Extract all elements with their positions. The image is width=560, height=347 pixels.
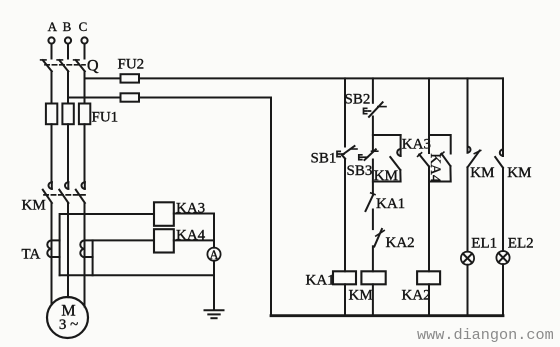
contact KM lamp2 [495,150,503,168]
wire KM to EL1 [467,167,469,251]
svg-text:EL2: EL2 [508,236,534,252]
node B terminal [65,37,71,43]
wire phase B to FU1 [67,71,69,103]
pushbutton SB2 actuator E [364,108,371,113]
svg-text:A: A [48,19,58,34]
relay coil KA4 [154,229,174,252]
svg-text:KM: KM [470,165,494,181]
wire KA3 to ammeter [174,214,214,248]
wire TA-C to KA4 [85,239,155,241]
svg-text:KM: KM [507,165,531,181]
contactor coil KM [361,271,385,284]
ammeter PA [207,248,220,261]
wire phase A to FU1 [51,71,53,103]
transformer TA primary loop A [52,240,60,257]
wire KA4 parallel branch bottom [429,166,451,182]
wire SB3 to KA1 contact [372,160,374,194]
pushbutton SB2 [369,102,386,117]
fuse FU1 pole 1 [46,104,57,125]
svg-text:B: B [63,19,72,34]
svg-text:SB2: SB2 [345,92,371,108]
pushbutton SB1 actuator E [337,151,344,156]
svg-text:C: C [79,19,88,34]
relay coil KA1 [333,271,356,284]
svg-text:KA1: KA1 [306,273,335,289]
wire phase B tap to FU2 [68,97,121,99]
switch Q pole 3 blade [74,60,85,71]
wire phase C KM to motor [84,203,86,307]
fuse FU2 lower [121,93,140,101]
transformer TA winding C [80,240,84,257]
wire phase B KM to motor [67,203,69,297]
svg-text:EL1: EL1 [471,236,497,252]
wire phase A stub [51,44,53,59]
wire KA4 branch top [428,78,430,153]
svg-text:A: A [209,248,218,262]
wire KM holding branch top [373,134,401,136]
pushbutton SB3 [365,149,378,160]
svg-text:KA3: KA3 [402,137,431,153]
contactor KM main pole 1 [43,182,52,203]
wire SB2 to SB3 [372,117,374,152]
wire control left rail [270,98,272,316]
svg-text:TA: TA [22,247,41,263]
wire SB2 branch top [372,78,374,102]
wire EL2 branch top [502,78,504,150]
contact KM holding NO [390,135,400,170]
contactor KM linkage dashed [44,194,85,196]
transformer TA winding A [47,240,51,257]
wire KM holding branch bottom [373,170,401,182]
svg-text:FU1: FU1 [92,110,119,126]
switch Q pole 2 blade [57,60,68,71]
wire TA-C secondary drop [92,240,94,275]
wire KA4 to ammeter [174,239,214,241]
motor M [47,297,88,338]
svg-text:FU2: FU2 [118,57,145,73]
wire EL1 to bottom rail [467,265,469,316]
wire KA2 to KM coil [372,246,374,271]
contact KM lamp1 [468,147,481,168]
wire phase A KM to motor [51,203,53,305]
wire KA4 to KA2 coil [428,167,430,272]
wire KA1 to KA2 contact [372,210,374,230]
relay coil KA2 [417,271,440,284]
wire KA1 coil to bottom rail [344,284,346,315]
relay coil KA3 [154,202,174,226]
wire SB1 branch top [344,78,346,146]
node C terminal [81,37,87,43]
wire measuring common [60,274,214,276]
wire KA2 coil to bottom rail [428,284,430,315]
svg-text:KM: KM [22,198,46,214]
wire phase C FU1 to KM [84,124,86,182]
lamp EL1 [461,252,474,265]
contactor KM main pole 2 [59,182,68,203]
svg-text:www.diangon.com: www.diangon.com [417,326,554,344]
wire EL2 to bottom rail [502,264,504,316]
lamp EL2 [496,251,509,264]
wire ammeter to ground [213,261,215,310]
svg-text:KM: KM [349,288,373,304]
wire KM coil to bottom rail [372,284,374,315]
wire EL1 branch top [467,78,469,147]
wire control top rail [139,77,503,79]
contact KA4 NO [418,153,429,167]
wire KM to EL2 [502,168,504,251]
transformer TA primary loop C [85,256,93,258]
contact KA1 NO [366,193,376,211]
wire phase B stub [67,44,69,59]
contactor KM main pole 3 [76,182,85,203]
svg-text:Q: Q [87,58,99,75]
fuse FU1 pole 3 [79,104,90,125]
wire SB1 to KA1 coil [344,159,346,271]
wire phase C stub [84,44,86,59]
pushbutton SB3 actuator E [359,155,368,160]
wire control bottom rail [271,314,503,317]
switch Q linkage dashed [45,64,85,66]
svg-text:KA1: KA1 [376,196,405,212]
wire phase C to FU1 [84,71,86,103]
wire FU2 to left rail [139,97,271,99]
svg-text:KA2: KA2 [402,288,431,304]
wire phase A FU1 to KM [51,124,53,182]
svg-text:3 ~: 3 ~ [59,317,78,333]
contact KA2 NC [374,229,384,247]
node A terminal [48,37,54,43]
fuse FU2 upper [121,74,140,82]
wire phase B FU1 to KM [67,124,69,182]
svg-text:SB3: SB3 [347,163,373,179]
fuse FU1 pole 2 [62,104,73,125]
pushbutton SB1 [342,146,357,159]
svg-text:SB1: SB1 [311,151,337,167]
contact KA4 parallel NO [440,152,451,166]
wire phase C tap to FU2 [85,77,121,79]
wire TA-A secondary to KA3 [60,214,154,275]
switch Q pole 1 blade [41,60,52,71]
ground [205,310,224,318]
wire KA4 parallel branch top [429,135,451,154]
svg-text:KA2: KA2 [386,235,415,251]
